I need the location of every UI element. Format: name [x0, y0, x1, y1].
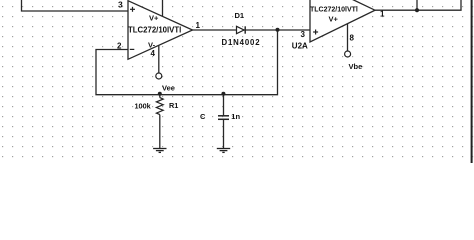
svg-text:V-: V-: [148, 40, 156, 49]
svg-text:1n: 1n: [231, 112, 240, 121]
svg-text:V+: V+: [329, 15, 339, 24]
svg-text:D1N4002: D1N4002: [222, 38, 261, 47]
svg-text:TLC272/10lVTl: TLC272/10lVTl: [310, 6, 358, 13]
svg-text:100k: 100k: [135, 102, 152, 111]
svg-text:V+: V+: [149, 14, 159, 23]
svg-text:R1: R1: [169, 101, 178, 110]
svg-text:4: 4: [151, 49, 156, 58]
svg-text:C: C: [200, 112, 206, 121]
svg-text:1: 1: [196, 21, 201, 30]
svg-text:Vbe: Vbe: [349, 62, 363, 71]
svg-text:3: 3: [301, 30, 306, 39]
svg-text:U2A: U2A: [292, 42, 308, 51]
svg-text:Vee: Vee: [162, 83, 175, 92]
svg-text:8: 8: [350, 34, 355, 43]
svg-text:D1: D1: [235, 11, 245, 20]
svg-text:2: 2: [117, 41, 122, 50]
svg-text:3: 3: [118, 0, 123, 10]
svg-text:TLC272/10lVTl: TLC272/10lVTl: [128, 26, 181, 35]
svg-text:1: 1: [380, 10, 385, 19]
